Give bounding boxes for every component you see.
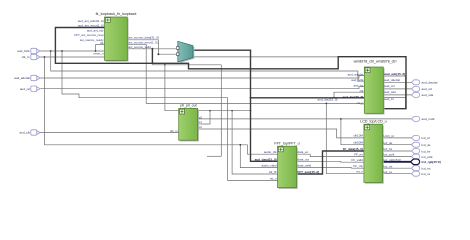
svg-text:lcd_id: lcd_id <box>422 136 430 140</box>
svg-text:LCD_id: LCD_id <box>384 134 394 138</box>
svg-text:lcd_rgb[15:0]: lcd_rgb[15:0] <box>422 160 441 164</box>
svg-text:aud_scl: aud_scl <box>422 87 433 91</box>
svg-text:lcd_hs: lcd_hs <box>384 147 393 151</box>
svg-text:aud_sda: aud_sda <box>384 90 396 94</box>
svg-text:aud_lrc: aud_lrc <box>384 97 394 101</box>
svg-text:FF_en: FF_en <box>354 152 363 156</box>
svg-text:axi_source_valid: axi_source_valid <box>129 45 152 49</box>
svg-text:rst_n: rst_n <box>270 176 277 180</box>
svg-text:clk10M: clk10M <box>353 134 363 138</box>
svg-text:aud_scl: aud_scl <box>384 84 395 88</box>
svg-text:lcd_de: lcd_de <box>384 141 393 145</box>
svg-text:lcd_rst: lcd_rst <box>384 164 393 168</box>
svg-text:lcd_pclk: lcd_pclk <box>384 153 395 157</box>
svg-text:aud_dac[15..0]: aud_dac[15..0] <box>318 97 338 101</box>
svg-text:clk_in: clk_in <box>170 129 178 133</box>
svg-text:axi_source_data[31..0]: axi_source_data[31..0] <box>129 36 160 40</box>
svg-text:FFT_axis[15..0]: FFT_axis[15..0] <box>298 170 320 174</box>
svg-text:reset_n: reset_n <box>93 51 103 55</box>
svg-text:aud_adcdat: aud_adcdat <box>14 76 30 80</box>
svg-text:FF_data[15..0]: FF_data[15..0] <box>343 147 363 151</box>
svg-text:lcd_rst: lcd_rst <box>422 167 431 171</box>
svg-text:audio_clk: audio_clk <box>264 150 277 154</box>
svg-text:clk_in: clk_in <box>22 55 30 59</box>
svg-text:aud_mclk: aud_mclk <box>422 117 436 121</box>
svg-text:aud_dacdat: aud_dacdat <box>422 81 438 85</box>
svg-text:aud_bclk: aud_bclk <box>351 78 364 82</box>
svg-text:aud_sda: aud_sda <box>422 93 434 97</box>
svg-text:clk: clk <box>360 89 364 93</box>
svg-text:c1: c1 <box>199 120 203 124</box>
svg-text:lcd_pclk: lcd_pclk <box>422 155 433 159</box>
svg-text:rst_n: rst_n <box>356 170 363 174</box>
svg-text:data_valid: data_valid <box>298 164 312 168</box>
svg-text:clk: clk <box>100 41 104 45</box>
svg-text:aud_data[15..0]: aud_data[15..0] <box>255 157 277 161</box>
svg-text:lcd_vs: lcd_vs <box>422 172 431 176</box>
svg-text:data_out: data_out <box>298 157 310 161</box>
svg-text:aud_dac[15..0]: aud_dac[15..0] <box>342 95 363 99</box>
svg-text:data_en: data_en <box>298 150 309 154</box>
svg-text:rst_n: rst_n <box>357 101 364 105</box>
svg-text:aud_adcdat: aud_adcdat <box>348 72 364 76</box>
svg-text:LCD_top/LCD_u: LCD_top/LCD_u <box>360 120 386 124</box>
svg-text:FFT_axi_source_resp: FFT_axi_source_resp <box>74 33 104 37</box>
svg-text:clk50M: clk50M <box>353 141 363 145</box>
svg-text:c0: c0 <box>199 115 203 119</box>
svg-text:fir_loopback_fir_loopback: fir_loopback_fir_loopback <box>96 12 137 16</box>
svg-text:c2: c2 <box>199 125 203 129</box>
svg-text:lcd_de: lcd_de <box>422 143 431 147</box>
svg-text:aud_ant_adcd[1..0]: aud_ant_adcd[1..0] <box>78 19 104 23</box>
svg-text:aud_bclk: aud_bclk <box>17 49 30 53</box>
svg-text:lcd_rgb[15:0]: lcd_rgb[15:0] <box>384 158 402 162</box>
svg-text:aud_dacdat: aud_dacdat <box>384 78 400 82</box>
svg-text:FF_rdy: FF_rdy <box>353 164 363 168</box>
svg-text:clk_fft: clk_fft <box>269 170 277 174</box>
svg-text:aud_ant_error[1..0]: aud_ant_error[1..0] <box>78 24 104 28</box>
svg-text:aud_adc[15..0]: aud_adc[15..0] <box>384 72 405 76</box>
svg-text:lcd_hs: lcd_hs <box>422 149 431 153</box>
svg-text:aud_ant_rdy: aud_ant_rdy <box>87 28 104 32</box>
svg-text:aud_lrc: aud_lrc <box>353 84 363 88</box>
svg-text:FF_valid: FF_valid <box>351 158 363 162</box>
svg-text:lcd_vs: lcd_vs <box>384 170 393 174</box>
svg-text:aud_rst: aud_rst <box>20 87 30 91</box>
svg-text:pll_pll_out: pll_pll_out <box>180 104 196 108</box>
svg-text:aud_clk: aud_clk <box>19 131 30 135</box>
svg-text:FFT_top/FFT_u: FFT_top/FFT_u <box>274 141 299 145</box>
svg-text:wm8978_ctrl_wm8978_ctrl: wm8978_ctrl_wm8978_ctrl <box>354 60 397 64</box>
svg-text:audio_valid: audio_valid <box>261 164 277 168</box>
svg-text:axi_source_error[1..0]: axi_source_error[1..0] <box>129 41 158 45</box>
